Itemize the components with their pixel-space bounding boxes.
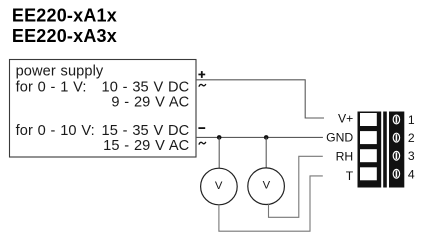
screw 3: [393, 151, 399, 160]
svg-text:V: V: [215, 180, 223, 192]
svg-text:GND: GND: [326, 131, 353, 145]
svg-text:15 - 29 V AC: 15 - 29 V AC: [103, 138, 189, 154]
svg-text:2: 2: [408, 131, 415, 145]
AC symbol ~ (bottom): [199, 142, 206, 145]
svg-text:EE220-xA1x: EE220-xA1x: [12, 6, 117, 26]
svg-text:for 0 - 10 V:: for 0 - 10 V:: [16, 123, 95, 139]
terminal block X1 screw column: [389, 112, 404, 188]
wire: voltmeter V1 to terminal T: [219, 176, 323, 231]
AC symbol ~ (top): [199, 84, 206, 87]
screw 4: [393, 169, 399, 178]
terminal block X1 body: [358, 112, 382, 188]
svg-text:10 - 35 V DC: 10 - 35 V DC: [102, 80, 190, 96]
svg-text:EE220-xA3x: EE220-xA3x: [12, 26, 117, 46]
terminal opening 4: [360, 167, 377, 180]
svg-text:for 0 - 1 V:: for 0 - 1 V:: [16, 80, 87, 96]
svg-text:T: T: [346, 169, 354, 183]
svg-text:V: V: [263, 180, 271, 192]
svg-text:3: 3: [408, 149, 415, 163]
svg-text:9 - 29 V AC: 9 - 29 V AC: [111, 94, 189, 110]
terminal opening 3: [360, 149, 377, 162]
wire: supply - to terminal GND: [196, 136, 323, 138]
svg-text:1: 1: [408, 113, 415, 127]
wire: supply + to terminal V+: [196, 80, 324, 118]
screw 2: [393, 133, 399, 142]
svg-text:4: 4: [408, 168, 415, 182]
voltmeter V1: [201, 168, 238, 205]
voltmeter V2: [248, 168, 285, 205]
terminal opening 2: [360, 131, 377, 144]
junction dot J2: [264, 135, 269, 140]
terminal block X1 divider bar: [383, 112, 387, 188]
svg-text:power supply: power supply: [16, 64, 104, 80]
screw 1: [393, 115, 399, 124]
terminal opening 1: [360, 113, 377, 126]
svg-text:RH: RH: [336, 149, 354, 163]
wire: J1 to voltmeter V1: [218, 137, 220, 168]
junction dot J1: [217, 135, 222, 140]
svg-text:15 - 35 V DC: 15 - 35 V DC: [102, 123, 190, 139]
power supply box PS1: [10, 60, 197, 158]
polarity label + (positive supply terminal): [198, 71, 205, 78]
wire: J2 to voltmeter V2: [265, 137, 267, 168]
svg-text:V+: V+: [338, 111, 353, 125]
wire: voltmeter V2 to terminal RH: [269, 156, 323, 217]
polarity label - (negative supply terminal): [198, 127, 205, 129]
